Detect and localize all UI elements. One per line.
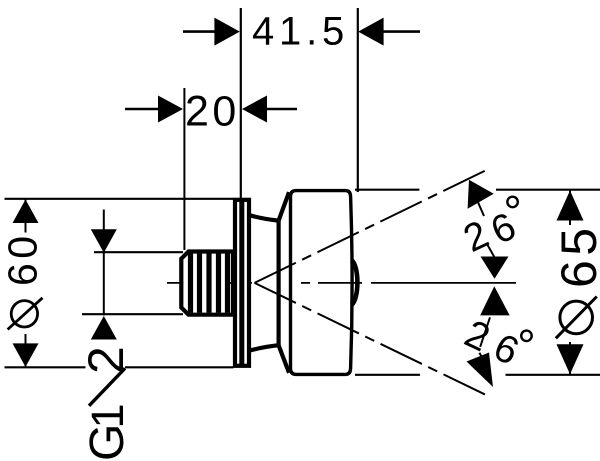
extension line 20 left — [183, 88, 185, 250]
neck upper edge — [250, 215, 278, 220]
dimension line D65 — [569, 190, 571, 225]
angular dim bowtie upper arrow — [481, 257, 509, 279]
thread crest bars — [191, 254, 228, 313]
diameter symbol D65 — [560, 301, 593, 334]
dimension 20 arrow right — [242, 96, 267, 123]
extension line D60 bottom (gap for G1/2 slash) — [5, 366, 86, 368]
angular dim arrow upper outer — [468, 180, 494, 209]
dimension 41.5 tail right — [382, 30, 420, 33]
dimension D60 arrow down — [13, 343, 39, 367]
flange inner line — [239, 200, 244, 366]
extension line 41.5 left / 20 right — [240, 8, 242, 199]
dimension 20 tail right — [265, 108, 297, 111]
svg-text:20: 20 — [185, 88, 240, 136]
svg-text:60: 60 — [0, 231, 46, 286]
neck lower edge — [250, 345, 278, 350]
dimension D60 arrow up — [13, 200, 39, 224]
angular dim arc segments upper — [477, 200, 484, 216]
extension line 41.5 right — [357, 8, 359, 192]
dimension G1/2 arrow down — [91, 229, 117, 253]
dimension D65 arrow up — [557, 191, 584, 221]
dimension D65 arrow down — [557, 344, 584, 374]
bell frustum slant lower — [279, 345, 289, 373]
jet ball bulge — [351, 260, 357, 305]
centerline — [167, 282, 516, 284]
spray angle ray upper (dash-dot) — [255, 169, 490, 283]
svg-text:41.5: 41.5 — [252, 10, 349, 54]
dimension G1/2 arrow up — [91, 316, 117, 340]
svg-text:2: 2 — [78, 346, 134, 374]
extension line G1/2 bottom — [82, 313, 183, 315]
bell frustum slant upper — [279, 192, 289, 220]
dimension 20 arrow left — [158, 96, 183, 123]
extension line D65 bottom — [355, 374, 420, 376]
dimension 41.5 arrow left — [214, 18, 239, 46]
angular dim arc segments lower — [480, 317, 490, 347]
extension line D65 top — [355, 189, 419, 191]
dimension 20 tail left — [125, 108, 160, 111]
bell small face line — [277, 221, 281, 346]
dimension 41.5 tail left — [183, 30, 216, 33]
diameter symbol D60 — [11, 301, 37, 327]
spray angle ray lower (dash-dot) — [255, 283, 491, 397]
extension line D60 top — [5, 198, 234, 200]
dimension line D60 — [25, 199, 27, 232]
wall flange plate — [235, 200, 249, 366]
bell face plate outline — [291, 191, 353, 375]
angular dim bowtie lower arrow — [480, 286, 510, 315]
dimension line G1/2 — [103, 210, 105, 316]
dimension 41.5 arrow right — [358, 18, 383, 46]
svg-text:65: 65 — [551, 223, 600, 288]
extension line G1/2 top — [94, 251, 183, 253]
angular dim arrow lower outer — [467, 353, 494, 388]
svg-text:1: 1 — [82, 403, 133, 428]
thread G1/2 outline — [181, 252, 233, 315]
